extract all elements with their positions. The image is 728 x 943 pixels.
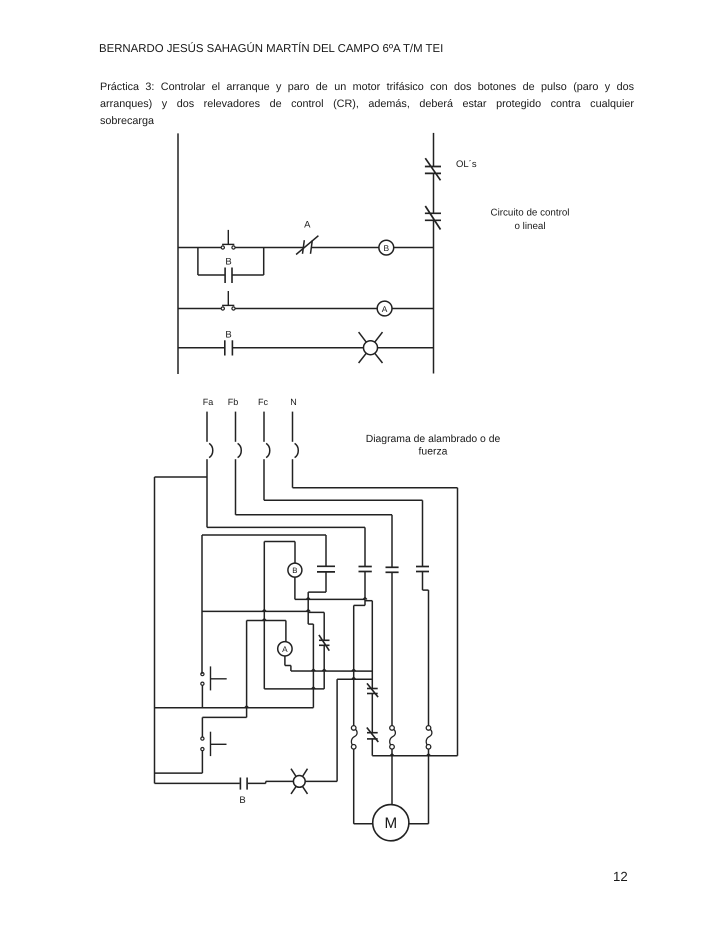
wire parallel branch (rung 1) xyxy=(198,248,264,276)
wire N horizontal run xyxy=(293,487,458,489)
svg-text:fuerza: fuerza xyxy=(419,447,448,458)
label Fc xyxy=(258,397,268,407)
wire below pushbutton (upper) xyxy=(201,685,203,707)
svg-text:o lineal: o lineal xyxy=(514,221,545,232)
label B (rung 3 contact) xyxy=(225,329,231,340)
svg-text:A: A xyxy=(382,304,388,314)
wire coil-circuit loop top and left xyxy=(202,535,326,674)
contactor contact (phase B) xyxy=(386,567,399,572)
wire Fa horizontal run xyxy=(207,526,365,528)
disconnect switch Fc xyxy=(264,412,270,501)
wire Fc horizontal run xyxy=(264,499,423,501)
wire phase A to motor xyxy=(354,749,373,824)
paragraph xyxy=(100,79,634,129)
svg-text:B: B xyxy=(384,243,390,253)
disconnect switch Fa xyxy=(207,412,213,528)
wire phase B to motor xyxy=(391,749,393,805)
label A (rung 1 contact) xyxy=(304,220,311,231)
disconnect switch Fb xyxy=(236,412,242,515)
wire coil A bottom xyxy=(285,656,372,671)
wire bottom rung xyxy=(155,781,338,783)
label B (bottom rung) xyxy=(239,795,245,806)
label B (branch contact) xyxy=(225,257,231,268)
wire left rail (power) xyxy=(154,477,156,783)
svg-text:Fa: Fa xyxy=(203,397,214,407)
svg-text:B: B xyxy=(225,257,231,268)
contactor contact (phase A) xyxy=(359,567,372,572)
wire rung 1 xyxy=(178,247,434,249)
contact B (holding, branch) xyxy=(225,268,232,284)
wire coil B bottom xyxy=(295,577,365,600)
svg-text:M: M xyxy=(384,815,397,832)
svg-text:B: B xyxy=(239,795,245,806)
wire right rail (control circuit) xyxy=(433,133,435,374)
motor M xyxy=(373,805,409,841)
svg-text:N: N xyxy=(290,397,297,407)
wire phase A below contact xyxy=(354,572,365,726)
wire column 324 lower xyxy=(323,645,325,689)
contact B (rung 3) xyxy=(225,340,233,355)
svg-text:B: B xyxy=(292,566,297,575)
svg-text:Fc: Fc xyxy=(258,397,268,407)
wire N vertical xyxy=(457,488,459,756)
svg-text:A: A xyxy=(282,645,288,654)
pushbutton stop (rung 1) xyxy=(221,230,235,249)
wire column 372 lower to N xyxy=(372,739,457,756)
wire column 372 middle xyxy=(371,694,373,733)
wire phase C to motor xyxy=(409,749,429,824)
pushbutton start (power, lower) xyxy=(201,732,227,756)
label Fa xyxy=(203,397,214,407)
wire phase B below contact xyxy=(391,572,393,725)
contactor contact (coil circuit) xyxy=(317,566,335,572)
wire phase A upper (Fa) xyxy=(364,527,366,566)
overload contact OL2 xyxy=(425,206,441,230)
label Fb xyxy=(228,397,239,407)
coil A (rung 2) xyxy=(377,301,392,316)
overload contact 1 (column 372) xyxy=(367,683,378,697)
label Circuito de control o lineal xyxy=(491,208,570,233)
svg-text:OL´s: OL´s xyxy=(456,159,477,170)
overload heater (phase C) xyxy=(426,726,432,749)
wire Fb horizontal run xyxy=(236,514,393,516)
wire below pushbutton (lower) xyxy=(155,751,203,773)
wire phase B upper (Fb) xyxy=(391,515,393,567)
contact A (NC, rung 1) xyxy=(296,236,318,255)
wire rung 3 xyxy=(178,347,434,349)
wire below coil-circuit contact xyxy=(308,572,326,708)
wire horizontal 611 xyxy=(202,611,324,612)
overload contact OL1 xyxy=(425,158,441,180)
wire phase C upper (Fc) xyxy=(422,500,424,566)
svg-text:Circuito de control: Circuito de control xyxy=(491,208,570,219)
overload heater (phase A) xyxy=(351,726,357,749)
disconnect switch N xyxy=(293,412,299,488)
coil B (rung 1) xyxy=(379,240,394,255)
coil A (power) xyxy=(278,642,292,656)
pushbutton stop (power, upper) xyxy=(201,666,227,690)
overload contact 2 (column 372) xyxy=(367,728,379,743)
wire horizontal 689 xyxy=(264,688,324,690)
header text xyxy=(99,43,659,55)
contact B (bottom rung) xyxy=(240,778,247,790)
wire phase C below contact xyxy=(423,572,429,726)
junction marks xyxy=(245,597,431,755)
overload contact (column 324) xyxy=(319,635,330,651)
wire horizontal 707 xyxy=(155,707,314,709)
label OL's xyxy=(456,159,477,170)
contactor contact (phase C) xyxy=(416,567,429,572)
wire left rail (control circuit) xyxy=(177,133,179,374)
wire jog to pushbutton (lower) xyxy=(202,708,246,737)
wire lamp column xyxy=(337,679,372,781)
wire column 324 upper xyxy=(323,612,325,640)
svg-text:A: A xyxy=(304,220,311,231)
svg-text:Fb: Fb xyxy=(228,397,239,407)
label Diagrama de alambrado o de fuerza xyxy=(366,434,501,458)
wire bridge to coil A xyxy=(247,621,286,708)
wire Fa to left rail xyxy=(155,476,208,478)
label N xyxy=(290,397,297,407)
page number xyxy=(613,869,628,884)
pilot lamp (power) xyxy=(291,769,308,794)
svg-text:Diagrama de alambrado o de: Diagrama de alambrado o de xyxy=(366,434,501,445)
pushbutton start (rung 2) xyxy=(221,291,235,310)
coil B (power) xyxy=(288,563,302,577)
wire bridge to coil B xyxy=(264,542,295,689)
pilot lamp (rung 3) xyxy=(359,332,383,363)
overload heater (phase B) xyxy=(390,726,396,749)
wire branch to overload column xyxy=(365,601,372,689)
svg-text:B: B xyxy=(225,329,231,340)
wire rung 2 xyxy=(178,308,434,310)
